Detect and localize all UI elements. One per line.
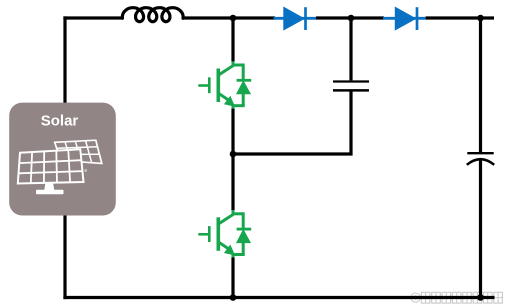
svg-text:Solar: Solar: [41, 113, 79, 130]
